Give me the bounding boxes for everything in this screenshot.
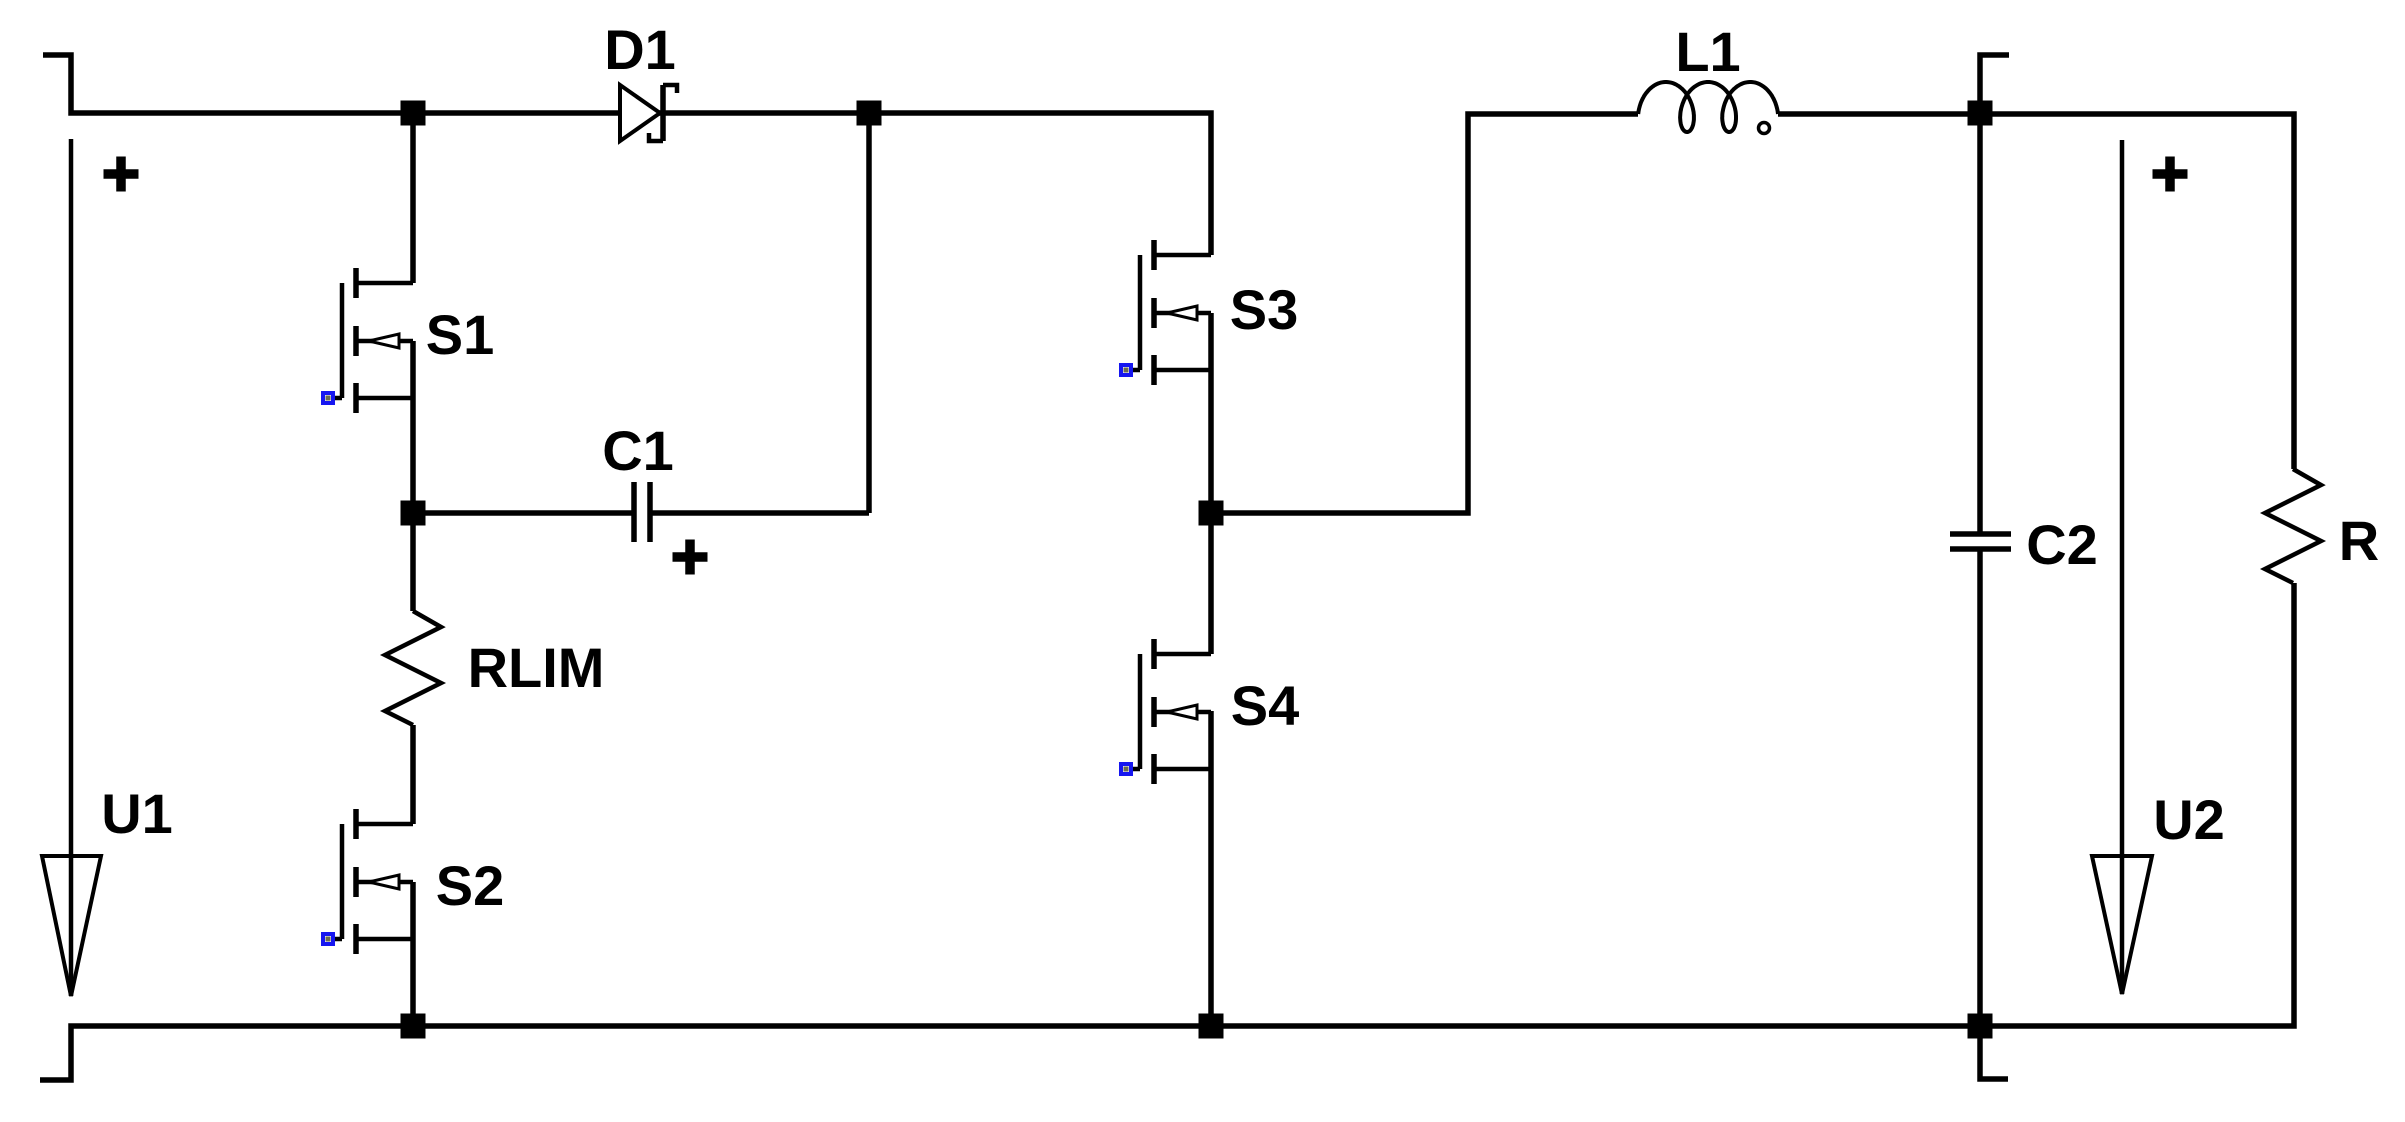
svg-text:R: R <box>2339 509 2379 572</box>
svg-text:D1: D1 <box>604 18 676 81</box>
svg-text:L1: L1 <box>1675 20 1740 83</box>
svg-text:RLIM: RLIM <box>468 636 605 699</box>
svg-text:C2: C2 <box>2026 513 2098 576</box>
svg-text:S2: S2 <box>436 854 505 917</box>
svg-text:S3: S3 <box>1230 278 1299 341</box>
svg-text:S4: S4 <box>1231 674 1300 737</box>
svg-text:C1: C1 <box>602 419 674 482</box>
svg-text:U1: U1 <box>101 782 173 845</box>
svg-text:S1: S1 <box>426 303 495 366</box>
svg-text:U2: U2 <box>2153 788 2225 851</box>
